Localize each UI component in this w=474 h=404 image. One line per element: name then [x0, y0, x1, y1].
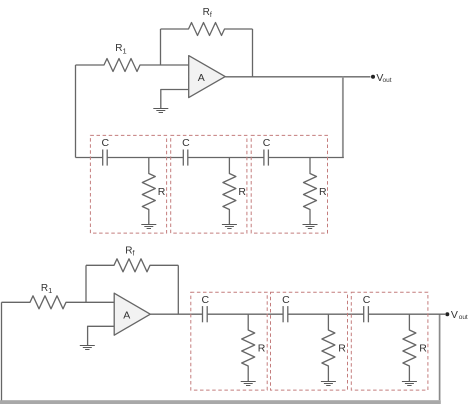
label Rf (bottom): [125, 246, 134, 258]
wire left feedback vertical (top): [75, 65, 77, 158]
svg-text:C: C: [282, 294, 290, 306]
label Vout (bottom): [451, 309, 468, 321]
resistor R1: [76, 59, 189, 72]
node Vout (top): [371, 75, 375, 79]
wire ladder segment 3 (top): [188, 157, 264, 159]
ground (bottom section 1): [241, 382, 256, 386]
wire output segment 3 (bottom): [288, 313, 364, 315]
ground (top section 2): [222, 225, 237, 229]
node Vout (bottom): [445, 312, 449, 316]
resistor R (top section 2): [223, 158, 236, 225]
resistor R (bottom section 3): [403, 314, 416, 381]
wire output segment 2 (bottom): [207, 313, 283, 315]
label Vout (top): [376, 72, 391, 84]
ground (top section 3): [303, 225, 318, 229]
label R1: [115, 43, 126, 55]
wire ladder segment 2 (top): [107, 157, 183, 159]
ground (top op-amp): [153, 109, 168, 113]
capacitor C2 (bottom): [283, 306, 288, 322]
svg-text:A: A: [123, 310, 130, 322]
label R1 (bottom): [41, 283, 52, 295]
op-amp A (bottom): [114, 293, 150, 335]
svg-text:R: R: [158, 186, 166, 198]
svg-text:Rf: Rf: [203, 7, 212, 19]
ground (bottom section 3): [402, 382, 417, 386]
svg-text:C: C: [363, 294, 371, 306]
svg-text:Vout: Vout: [376, 72, 391, 84]
wire output to ladder (top right vertical): [342, 77, 344, 158]
ground (bottom op-amp): [80, 346, 95, 350]
op-amp A (top): [189, 56, 226, 98]
resistor R (top section 3): [304, 158, 317, 225]
svg-text:A: A: [198, 72, 205, 84]
svg-text:R1: R1: [115, 43, 126, 55]
wire ladder segment 1 (top): [76, 157, 103, 159]
ground (top section 1): [141, 225, 156, 229]
dashed box section 2 (top): [171, 135, 247, 233]
capacitor C1 (bottom): [203, 306, 208, 322]
resistor R (bottom section 1): [242, 314, 255, 381]
dashed box section 2 (bottom): [271, 292, 348, 390]
dashed box section 3 (bottom): [351, 292, 428, 390]
svg-text:R: R: [338, 343, 346, 355]
svg-text:C: C: [102, 137, 110, 149]
svg-text:C: C: [202, 294, 210, 306]
capacitor C3 (bottom): [364, 306, 369, 322]
dashed box section 3 (top): [251, 135, 327, 233]
svg-text:C: C: [263, 137, 271, 149]
wire output segment 1 (bottom): [150, 313, 202, 315]
wire output segment 4 (bottom): [368, 313, 445, 315]
label Rf: [203, 7, 212, 19]
wire bottom feedback bar: [0, 400, 441, 404]
wire Rf right vertical (bottom): [177, 265, 179, 314]
resistor R (bottom section 2): [322, 314, 335, 381]
dashed box section 1 (bottom): [191, 292, 267, 390]
svg-text:Vout: Vout: [451, 309, 468, 321]
capacitor C3 (top): [264, 150, 269, 166]
resistor Rf: [161, 23, 253, 36]
wire Rf left vertical: [160, 29, 162, 65]
wire left feedback vertical (bottom): [1, 302, 3, 400]
svg-text:R: R: [258, 343, 266, 355]
svg-text:R1: R1: [41, 283, 52, 295]
svg-text:R: R: [419, 343, 427, 355]
wire right feedback vertical (bottom): [439, 314, 441, 400]
resistor R (top section 1): [142, 158, 155, 225]
wire non-inverting input (top): [161, 90, 189, 109]
dashed box section 1 (top): [90, 135, 166, 233]
wire Rf left vertical (bottom): [85, 265, 87, 302]
svg-text:Rf: Rf: [125, 246, 134, 258]
wire output (top): [225, 76, 370, 78]
svg-text:R: R: [238, 186, 246, 198]
ground (bottom section 2): [321, 382, 336, 386]
wire non-inverting input (bottom): [88, 326, 115, 345]
capacitor C1 (top): [103, 150, 108, 166]
capacitor C2 (top): [183, 150, 188, 166]
wire Rf right vertical: [252, 29, 254, 77]
wire ladder segment 4 (top): [268, 157, 343, 159]
svg-text:R: R: [319, 186, 327, 198]
svg-text:C: C: [182, 137, 190, 149]
resistor Rf (bottom): [86, 259, 178, 272]
resistor R1 (bottom): [2, 296, 115, 309]
